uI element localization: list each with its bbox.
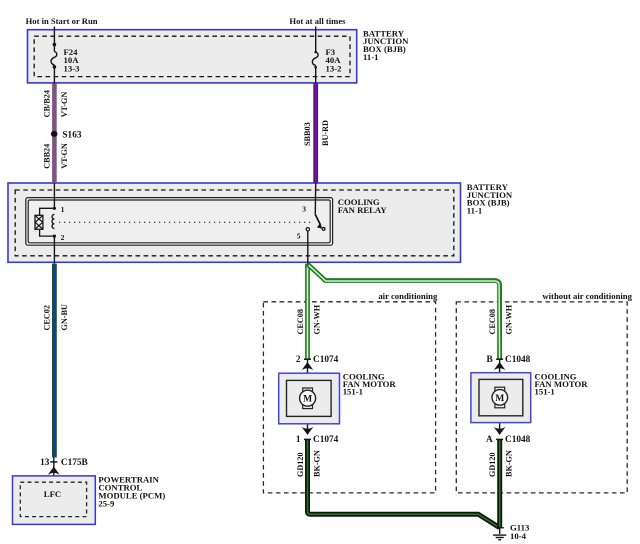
svg-text:C1048: C1048 [505, 435, 531, 445]
svg-text:11-1: 11-1 [363, 52, 378, 62]
svg-text:13-3: 13-3 [64, 63, 81, 73]
svg-text:CEC08: CEC08 [488, 309, 497, 334]
svg-text:S163: S163 [62, 131, 81, 141]
svg-text:GN-WH: GN-WH [313, 304, 322, 334]
svg-text:SBB03: SBB03 [303, 122, 312, 146]
svg-text:BU-RD: BU-RD [321, 120, 330, 146]
svg-text:C175B: C175B [61, 458, 88, 468]
svg-text:151-1: 151-1 [343, 387, 363, 397]
svg-text:1: 1 [296, 435, 301, 445]
svg-text:10-4: 10-4 [510, 531, 527, 541]
svg-text:M: M [495, 393, 504, 404]
svg-text:1: 1 [61, 205, 65, 214]
svg-text:CEC08: CEC08 [296, 309, 305, 334]
svg-text:BK-GN: BK-GN [505, 450, 514, 477]
svg-text:without air conditioning: without air conditioning [542, 291, 632, 301]
svg-text:25-9: 25-9 [98, 498, 115, 508]
svg-text:2: 2 [61, 233, 65, 242]
svg-text:air conditioning: air conditioning [378, 291, 438, 301]
svg-text:CBB24: CBB24 [42, 144, 51, 169]
svg-text:C1074: C1074 [313, 435, 339, 445]
svg-text:5: 5 [297, 231, 301, 240]
svg-text:B: B [486, 355, 492, 365]
svg-text:Hot at all times: Hot at all times [289, 16, 346, 26]
svg-text:C1074: C1074 [313, 355, 339, 365]
svg-text:A: A [486, 435, 493, 445]
svg-text:Hot in Start or Run: Hot in Start or Run [26, 16, 98, 26]
svg-text:GN-BU: GN-BU [60, 304, 69, 330]
svg-text:FAN RELAY: FAN RELAY [338, 205, 388, 215]
svg-text:BK-GN: BK-GN [313, 450, 322, 477]
svg-text:GN-WH: GN-WH [505, 304, 514, 334]
svg-text:M: M [303, 394, 312, 405]
svg-text:C1048: C1048 [505, 355, 531, 365]
svg-text:3: 3 [302, 205, 306, 214]
svg-text:GD120: GD120 [296, 452, 305, 477]
svg-text:CEC02: CEC02 [42, 305, 51, 330]
svg-text:LFC: LFC [44, 489, 61, 499]
svg-text:13-2: 13-2 [326, 63, 342, 73]
svg-text:2: 2 [296, 355, 301, 365]
svg-text:VT-GN: VT-GN [60, 92, 69, 118]
svg-text:VT-GN: VT-GN [60, 143, 69, 169]
svg-text:13: 13 [40, 458, 50, 468]
svg-text:151-1: 151-1 [535, 387, 555, 397]
svg-text:CB/B24: CB/B24 [42, 90, 51, 117]
svg-text:GD120: GD120 [488, 452, 497, 477]
svg-text:11-1: 11-1 [467, 206, 482, 216]
